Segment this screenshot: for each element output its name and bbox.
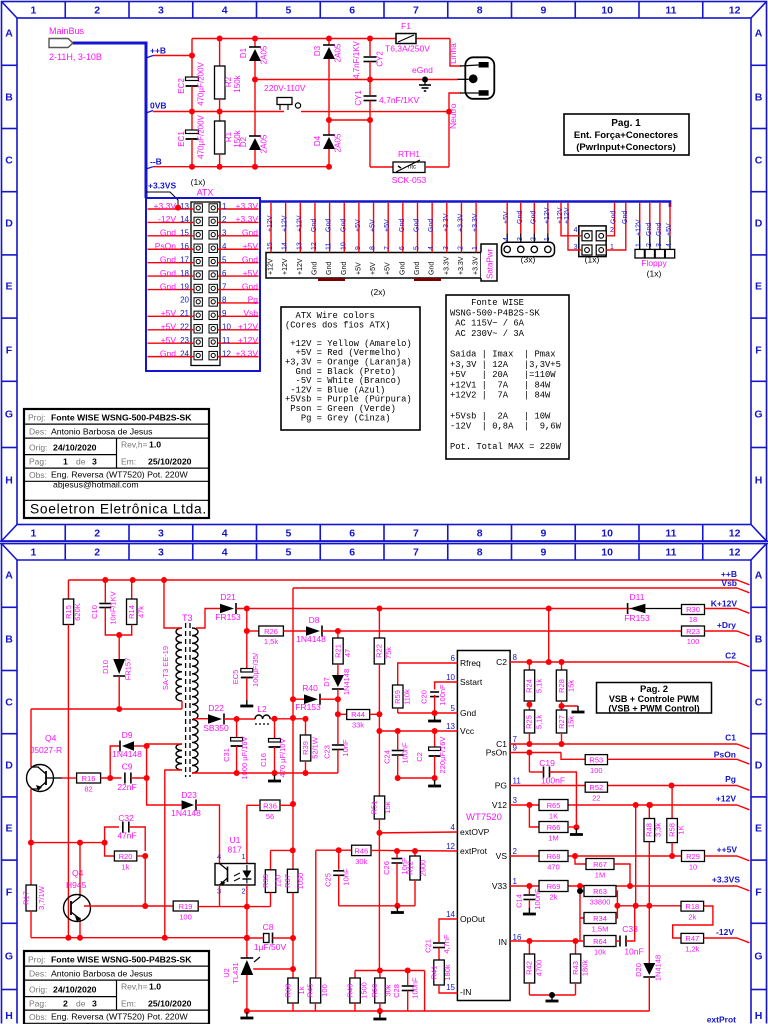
diode D21 [196, 609, 220, 629]
Pag. 1 title box [564, 114, 689, 155]
svg-text:Fonte WISE: Fonte WISE [450, 298, 524, 308]
svg-text:1.0: 1.0 [149, 982, 161, 992]
svg-text:D3: D3 [313, 45, 322, 56]
resistor R43 [575, 941, 577, 954]
svg-text:PsOn: PsOn [486, 748, 508, 758]
svg-text:E: E [5, 281, 12, 293]
resistor R2 [219, 39, 221, 67]
vertical K+12V to C2 [548, 609, 550, 663]
svg-text:ntc: ntc [408, 165, 416, 171]
svg-text:+3.3V: +3.3V [236, 214, 259, 224]
svg-text:R64: R64 [593, 937, 607, 946]
svg-text:7: 7 [413, 5, 419, 17]
svg-text:1: 1 [222, 202, 227, 211]
rail +Dry [283, 630, 306, 632]
svg-text:4: 4 [451, 823, 456, 832]
svg-text:C: C [5, 697, 13, 709]
resistor R46 [352, 845, 371, 855]
svg-text:C24: C24 [383, 750, 392, 764]
ATX pin row 13/1 [194, 204, 202, 212]
svg-text:Gnd: Gnd [311, 219, 318, 232]
wire IN pin16 line [510, 940, 584, 942]
svg-text:8: 8 [477, 547, 483, 559]
SATA pin 2 +3.3V [460, 203, 462, 253]
resistor R53 [585, 755, 607, 765]
svg-text:Gnd: Gnd [160, 268, 176, 278]
svg-text:C33: C33 [622, 924, 638, 934]
svg-text:SataPwr: SataPwr [486, 248, 495, 279]
svg-text:C25: C25 [324, 873, 333, 887]
svg-text:11: 11 [222, 336, 231, 345]
svg-text:Floppy: Floppy [641, 258, 667, 268]
wire primary bottom [181, 701, 183, 709]
svg-text:8: 8 [222, 296, 227, 305]
svg-text:R35: R35 [261, 874, 270, 888]
svg-text:C21: C21 [424, 939, 433, 953]
svg-text:R27: R27 [557, 715, 566, 729]
svg-text:R65: R65 [547, 801, 561, 810]
wire aux top [147, 743, 182, 745]
svg-text:18: 18 [180, 269, 189, 278]
svg-text:++5V: ++5V [717, 845, 738, 855]
svg-text:2: 2 [513, 847, 518, 856]
svg-text:RTH1: RTH1 [398, 149, 420, 159]
svg-text:Fonte WISE WSNG-500-P4B2S-SK: Fonte WISE WSNG-500-P4B2S-SK [51, 413, 192, 423]
svg-text:R49: R49 [345, 984, 354, 998]
svg-text:C28: C28 [392, 984, 401, 998]
svg-text:D7: D7 [322, 677, 331, 687]
diode D10 [116, 632, 122, 638]
svg-text:+12V: +12V [564, 207, 571, 224]
svg-text:Gnd: Gnd [242, 228, 258, 238]
page separator [0, 540, 768, 542]
svg-text:470 µF/10V: 470 µF/10V [278, 739, 287, 778]
svg-text:22nF: 22nF [117, 782, 136, 792]
svg-text:FR153: FR153 [295, 702, 321, 712]
svg-text:4: 4 [222, 5, 228, 17]
svg-text:5: 5 [222, 255, 227, 264]
resistor R65 [539, 800, 568, 811]
svg-text:T3: T3 [182, 613, 193, 623]
svg-text:C: C [5, 155, 13, 167]
svg-text:R25: R25 [525, 715, 534, 729]
svg-text:3: 3 [513, 796, 518, 805]
svg-text:R68: R68 [547, 852, 561, 861]
fuse F1 [396, 34, 416, 44]
svg-text:SB350: SB350 [203, 723, 229, 733]
svg-text:C16: C16 [259, 753, 268, 767]
svg-text:100: 100 [179, 913, 192, 922]
capacitor C31 [236, 719, 238, 740]
svg-text:AC 115V~ / 6A: AC 115V~ / 6A [450, 319, 525, 329]
svg-text:2: 2 [646, 243, 653, 247]
svg-text:11: 11 [513, 777, 522, 786]
wire V33 pin1 +3.3VS line [510, 885, 737, 887]
svg-text:220µF/16V: 220µF/16V [438, 737, 447, 774]
svg-text:Rfreq: Rfreq [460, 658, 481, 668]
Molex pin 3 Gnd [520, 203, 522, 234]
svg-text:6: 6 [349, 547, 355, 559]
svg-text:10nF: 10nF [342, 868, 351, 886]
svg-text:5: 5 [285, 528, 291, 540]
svg-text:Vsb: Vsb [721, 578, 737, 588]
svg-text:470: 470 [547, 863, 560, 872]
wire V12 pin3 +12V line [510, 804, 737, 806]
wire Linha to inlet [450, 39, 461, 67]
svg-text:Antonio Barbosa de Jesus: Antonio Barbosa de Jesus [51, 969, 153, 979]
AC inlet connector [465, 57, 494, 99]
SATA pin 10 Gnd [343, 203, 345, 253]
svg-text:1M: 1M [548, 834, 558, 843]
SATA pin 15 +12V [270, 203, 272, 253]
diode D3 [328, 39, 330, 46]
capacitor C21 [439, 919, 457, 942]
svg-text:R52: R52 [589, 783, 603, 792]
svg-text:R24: R24 [525, 679, 534, 693]
wire extProt row [371, 849, 457, 852]
svg-text:Proj:: Proj: [28, 955, 45, 965]
svg-text:Gnd: Gnd [242, 281, 258, 291]
svg-text:+12V2 | 7A | 84W: +12V2 | 7A | 84W [450, 391, 551, 401]
resistor R30 [682, 605, 705, 615]
svg-text:R45: R45 [306, 984, 315, 998]
svg-text:33800: 33800 [590, 898, 611, 907]
svg-text:6: 6 [222, 269, 227, 278]
svg-text:9: 9 [355, 246, 362, 250]
MainBus flag [49, 39, 73, 48]
svg-text:Gnd: Gnd [429, 262, 436, 275]
wire D23 to U1 pin4 [196, 805, 220, 864]
svg-text:1M: 1M [595, 871, 605, 880]
svg-text:12: 12 [222, 349, 231, 358]
svg-text:4: 4 [666, 243, 673, 247]
resistor R12 [414, 851, 416, 856]
svg-text:V12: V12 [492, 800, 507, 810]
svg-text:100nF: 100nF [401, 742, 410, 764]
ATX pin row 23/11 [194, 338, 202, 346]
eGnd node [422, 77, 428, 83]
svg-text:4,7nF/1KV: 4,7nF/1KV [379, 95, 419, 105]
ATX pin row 18/6 [194, 271, 202, 279]
resistor R19 [173, 901, 198, 911]
svg-text:5: 5 [285, 547, 291, 559]
svg-text:Gnd: Gnd [160, 228, 176, 238]
wire top rail [192, 38, 396, 40]
svg-text:4: 4 [503, 237, 510, 241]
Molex pin 2 Gnd [533, 203, 535, 234]
resistor R24 [528, 662, 530, 670]
svg-text:5,1k: 5,1k [535, 679, 544, 693]
svg-text:14: 14 [446, 910, 455, 919]
svg-text:Pag. 1: Pag. 1 [611, 118, 641, 129]
resistor R68 [539, 851, 568, 862]
svg-text:5: 5 [451, 704, 456, 713]
resistor R29 [682, 851, 705, 862]
resistor R51 [378, 731, 380, 796]
svg-text:52/1W: 52/1W [311, 736, 320, 759]
svg-text:D4: D4 [313, 135, 322, 146]
svg-text:1N4148: 1N4148 [342, 669, 351, 695]
svg-text:L2: L2 [257, 704, 267, 714]
svg-text:K+12V: K+12V [711, 599, 738, 609]
rail ++B [68, 579, 737, 581]
svg-text:C10: C10 [90, 605, 99, 619]
svg-text:C2: C2 [496, 657, 507, 667]
svg-text:Pag:: Pag: [29, 999, 47, 1009]
svg-text:R46: R46 [354, 846, 368, 855]
SATA pin 11 Gnd [329, 203, 331, 253]
Fonte WISE table [446, 295, 569, 459]
svg-text:9: 9 [222, 309, 227, 318]
svg-text:1N4148: 1N4148 [296, 634, 326, 644]
capacitor C24 [397, 731, 399, 750]
svg-text:1: 1 [636, 243, 643, 247]
Floppy pin 1 +12V [639, 203, 641, 236]
resistor R66 [529, 805, 539, 827]
svg-text:R51: R51 [370, 801, 379, 815]
svg-text:Gnd: Gnd [326, 219, 333, 232]
svg-text:R29: R29 [686, 852, 700, 861]
svg-text:Gnd: Gnd [326, 262, 333, 275]
svg-text:6: 6 [349, 5, 355, 17]
resistor R42 [528, 941, 530, 954]
SATA pin 8 +5V [373, 203, 375, 253]
svg-text:R36: R36 [263, 802, 277, 811]
svg-text:+5Vsb | 2A | 10W: +5Vsb | 2A | 10W [450, 411, 551, 421]
svg-text:+12V: +12V [238, 335, 258, 345]
svg-text:C2: C2 [415, 752, 424, 762]
capacitor CY2 [369, 39, 371, 57]
capacitor EC2 [191, 39, 193, 80]
svg-text:3: 3 [574, 244, 578, 251]
resistor R52 [585, 782, 607, 792]
resistor R37 [287, 869, 298, 892]
svg-text:R12: R12 [405, 861, 414, 875]
svg-text:100nF: 100nF [411, 977, 420, 999]
svg-text:1µF/50V: 1µF/50V [254, 942, 287, 952]
gnd R42 R43 [529, 994, 575, 996]
svg-text:+3.3V: +3.3V [458, 256, 465, 275]
wire primary top [164, 580, 182, 628]
resistor R34 [580, 891, 584, 918]
svg-text:9: 9 [540, 547, 546, 559]
svg-text:1N4148: 1N4148 [112, 749, 142, 759]
ATX pin row 21/9 [194, 311, 202, 319]
SATA pin 7 +5V [387, 203, 389, 253]
wire H945 base row [84, 905, 173, 907]
ATX pin row 24/12 [194, 351, 202, 359]
svg-text:100nF: 100nF [438, 684, 447, 706]
svg-text:10: 10 [601, 5, 613, 17]
resistor R47 [681, 933, 704, 943]
junction dots top rail [217, 36, 223, 42]
border frame [2, 2, 767, 542]
svg-text:SA-T3 EE-19: SA-T3 EE-19 [161, 646, 170, 690]
resistor R59 110k Rfreq [398, 663, 458, 685]
svg-text:Gnd: Gnd [311, 262, 318, 275]
svg-text:11: 11 [665, 528, 676, 540]
svg-text:9: 9 [540, 528, 546, 540]
capacitor C28 [407, 971, 409, 986]
svg-text:R59: R59 [393, 690, 402, 704]
wire earth rail eGnd [255, 79, 458, 81]
svg-text:Eng. Reversa (WT7520) Pot. 220: Eng. Reversa (WT7520) Pot. 220W [51, 1012, 188, 1022]
wire H945 emitter [79, 922, 81, 938]
capacitor EC5 [246, 609, 248, 672]
svg-text:EC1: EC1 [177, 131, 186, 147]
wire U1 pin2 down [246, 885, 248, 907]
svg-text:1: 1 [610, 244, 614, 251]
svg-text:extOVP: extOVP [460, 827, 490, 837]
svg-text:Vcc: Vcc [460, 726, 475, 736]
svg-text:1: 1 [30, 5, 36, 17]
svg-text:10: 10 [222, 323, 231, 332]
svg-text:D1: D1 [239, 47, 248, 58]
svg-text:+12V: +12V [268, 258, 275, 275]
svg-text:H: H [755, 1010, 763, 1022]
svg-text:MainBus: MainBus [49, 26, 85, 36]
svg-text:12: 12 [311, 242, 318, 250]
wire R45 top column [315, 850, 317, 978]
resistor R26 [247, 630, 259, 632]
resistor R67 [575, 856, 586, 864]
svg-text:18: 18 [689, 615, 697, 624]
svg-text:3: 3 [158, 5, 164, 17]
svg-text:47k: 47k [137, 606, 146, 618]
ATX pin row 20/8 [194, 298, 202, 306]
svg-text:470µF/200V: 470µF/200V [197, 114, 206, 158]
svg-text:PsOn: PsOn [714, 750, 736, 760]
wire extOVP row [379, 831, 457, 834]
svg-text:10: 10 [689, 863, 697, 872]
svg-text:2A05: 2A05 [260, 134, 269, 153]
rail Vsb [293, 587, 737, 589]
wire IN sense row [355, 970, 425, 972]
wire secondary gnd rail [192, 772, 338, 774]
svg-text:R47: R47 [685, 934, 699, 943]
svg-text:1N4148: 1N4148 [171, 808, 201, 818]
svg-text:D10: D10 [101, 660, 110, 674]
svg-text:5,1k: 5,1k [535, 715, 544, 729]
wire feedback row [617, 905, 681, 907]
svg-text:Obs:: Obs: [29, 470, 47, 480]
svg-text:8: 8 [370, 246, 377, 250]
svg-text:R23: R23 [686, 627, 700, 636]
svg-text:Pag:: Pag: [29, 457, 47, 467]
vertical Vsb feed [292, 588, 294, 969]
svg-text:24/10/2020: 24/10/2020 [53, 985, 97, 995]
svg-text:15k: 15k [383, 801, 392, 813]
svg-text:+12V: +12V [544, 207, 551, 224]
svg-text:120: 120 [274, 875, 283, 888]
svg-text:C14: C14 [515, 894, 524, 908]
svg-text:G: G [754, 409, 762, 421]
svg-text:+3.3V: +3.3V [236, 201, 259, 211]
svg-text:180k: 180k [443, 964, 452, 981]
capacitor C23 [337, 714, 339, 744]
svg-text:3: 3 [656, 243, 663, 247]
svg-text:100nF: 100nF [541, 776, 565, 786]
wire extProt bottom line [247, 1010, 649, 1012]
svg-text:Em:: Em: [121, 999, 136, 1009]
svg-text:EC2: EC2 [177, 78, 186, 94]
svg-text:C: C [755, 155, 763, 167]
svg-text:H: H [5, 1010, 13, 1022]
svg-text:3: 3 [517, 237, 524, 241]
resistor R39 [305, 719, 307, 735]
svg-text:15: 15 [180, 229, 189, 238]
resistor R63 [580, 886, 584, 891]
svg-text:10k: 10k [594, 948, 606, 957]
svg-text:(1x): (1x) [647, 269, 662, 279]
svg-text:2-11H, 3-10B: 2-11H, 3-10B [49, 52, 102, 62]
svg-text:30k: 30k [355, 857, 367, 866]
svg-text:11: 11 [326, 243, 333, 250]
svg-text:+3,3V | 12A |3,3V+5: +3,3V | 12A |3,3V+5 [450, 360, 561, 370]
svg-text:10nF/1KV: 10nF/1KV [109, 591, 118, 624]
resistor R38 [292, 969, 294, 978]
svg-text:G: G [5, 409, 13, 421]
svg-text:Gnd: Gnd [341, 262, 348, 275]
svg-text:(2x): (2x) [371, 287, 386, 297]
svg-text:220V-110V: 220V-110V [264, 83, 306, 93]
svg-text:2900: 2900 [419, 860, 428, 877]
SATA pin 6 Gnd [402, 203, 404, 253]
wire C2 pin8 line [510, 661, 737, 663]
svg-text:1,5M: 1,5M [592, 925, 609, 934]
svg-text:2: 2 [241, 887, 245, 896]
svg-text:de: de [76, 457, 86, 467]
svg-text:Pg: Pg [725, 774, 736, 784]
svg-text:Eng. Reversa (WT7520) Pot. 220: Eng. Reversa (WT7520) Pot. 220W [51, 470, 188, 480]
svg-text:A: A [5, 570, 13, 582]
svg-text:(VSB + PWM Control): (VSB + PWM Control) [608, 704, 699, 714]
SATA pin 3 +3.3V [446, 203, 448, 253]
rail dots top [102, 577, 108, 583]
svg-text:R28: R28 [557, 679, 566, 693]
svg-text:R21: R21 [333, 644, 342, 658]
svg-text:+5V: +5V [370, 262, 377, 275]
svg-text:13: 13 [446, 722, 455, 731]
wire C1 pin7 line [510, 743, 737, 745]
svg-text:R18: R18 [685, 902, 699, 911]
svg-text:Gnd: Gnd [340, 219, 347, 232]
svg-text:2: 2 [94, 5, 100, 17]
TL431 ref wire [253, 968, 293, 970]
svg-text:(1x): (1x) [585, 255, 600, 265]
Molex pin 1 +12V [547, 203, 549, 234]
svg-text:Gnd: Gnd [460, 708, 476, 718]
svg-text:Gnd: Gnd [428, 219, 435, 232]
svg-text:+3.3V: +3.3V [236, 348, 259, 358]
svg-text:2: 2 [94, 528, 100, 540]
svg-text:+3.3V: +3.3V [154, 201, 177, 211]
svg-text:WT7520: WT7520 [466, 812, 502, 823]
svg-text:4,7nF: 4,7nF [442, 934, 451, 954]
svg-text:D21: D21 [220, 592, 236, 602]
svg-text:2: 2 [457, 246, 464, 250]
svg-text:33k: 33k [352, 721, 364, 730]
Pag. 2 title box [597, 683, 712, 714]
svg-text:100: 100 [590, 766, 603, 775]
svg-text:6: 6 [399, 246, 406, 250]
resistor R69 [539, 881, 568, 892]
svg-text:Vsb: Vsb [243, 308, 258, 318]
svg-text:Pg = Grey (Cinza): Pg = Grey (Cinza) [285, 413, 391, 423]
wire PG pin11 line [510, 785, 737, 787]
svg-text:G: G [5, 951, 13, 963]
T3 primary winding [176, 628, 182, 701]
